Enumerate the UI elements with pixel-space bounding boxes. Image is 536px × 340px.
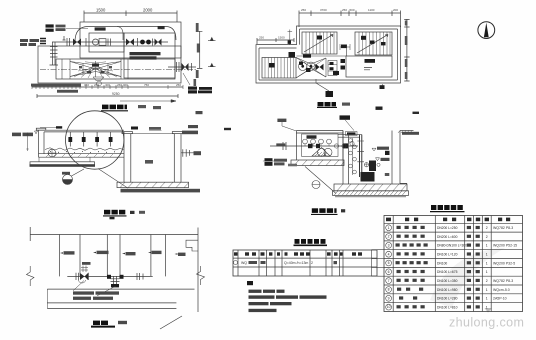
material row 4 (386, 251, 392, 257)
svg-text:DN200 L=250: DN200 L=250 (437, 226, 458, 230)
title plan2 underline (317, 106, 337, 108)
label dash on tank top (56, 126, 62, 128)
wet well right wall (392, 131, 407, 185)
title detail (93, 321, 100, 325)
outlet label block2 (199, 87, 212, 90)
stair2 up label (361, 36, 366, 40)
svg-text:500: 500 (350, 8, 355, 12)
note text line1 (73, 291, 94, 294)
foundation lower band (333, 191, 409, 196)
svg-text:2A5P-10: 2A5P-10 (493, 297, 507, 301)
left tank top edge (37, 130, 124, 132)
title sec1 scale (139, 211, 145, 214)
right dim chain (404, 19, 409, 81)
dimension line top of plan 1 (84, 11, 177, 23)
tank upper box outline (80, 22, 181, 58)
top-left label B (2 rows gray) (56, 25, 66, 28)
wall label 5 (175, 253, 178, 255)
pump table title underline (294, 244, 328, 246)
flange (152, 39, 154, 46)
submersible pump body (361, 172, 375, 182)
riser flanges (357, 141, 364, 162)
ground level symbol upper (208, 38, 216, 41)
cross target marker in tank (48, 149, 56, 157)
left base slab (30, 162, 95, 165)
svg-text:DN100: DN100 (437, 261, 447, 265)
valve handwheel circle 1 (299, 62, 307, 70)
note line 4 (249, 309, 277, 312)
svg-text:1500: 1500 (96, 8, 106, 13)
svg-text:9: 9 (388, 296, 390, 300)
flange (137, 38, 139, 46)
svg-text:Q=40m /h=13m: Q=40m /h=13m (284, 261, 308, 265)
svg-text:10: 10 (387, 305, 391, 309)
svg-text:350: 350 (84, 83, 89, 87)
title plan2 (318, 102, 324, 106)
dark marks on pipe (308, 144, 313, 148)
lower line 1 (47, 302, 176, 304)
left block hatch (265, 58, 294, 79)
foundation shadow (335, 196, 406, 198)
water level mark 1 (372, 148, 376, 151)
svg-text:1: 1 (486, 261, 488, 265)
elevation bubble label (62, 172, 70, 175)
rotated dim 1750 (196, 70, 199, 78)
detail callout circle (66, 111, 124, 169)
bottom dim chain row1 (32, 86, 183, 88)
svg-text:2: 2 (486, 235, 488, 239)
dim line top of plan 2 (299, 11, 401, 28)
stray blob below-right of title (376, 107, 383, 110)
svg-text:1: 1 (486, 305, 488, 309)
centerline stub (263, 160, 274, 162)
chain1 sub label smudge (57, 90, 78, 93)
baffle 1 (69, 132, 71, 147)
detail tag circle (312, 181, 320, 189)
left level triangle (35, 131, 38, 134)
baffle 4 (110, 132, 112, 147)
watermark faint logo behind table (430, 248, 505, 308)
svg-text:200: 200 (393, 8, 398, 12)
valve handwheel circle 2 (307, 62, 315, 70)
inner box right (124, 33, 175, 78)
band inner walls (62, 59, 128, 79)
left dim arrow line (26, 133, 28, 152)
wing top dim (257, 38, 294, 44)
svg-text:DN100 L=810: DN100 L=810 (437, 305, 458, 309)
svg-text:WQ782 P8-3: WQ782 P8-3 (493, 279, 513, 283)
title underline (101, 110, 128, 112)
right top leader label 1 (182, 131, 198, 135)
svg-text:WQ: WQ (241, 261, 247, 265)
base stems (39, 157, 90, 162)
pump table h-lines (233, 258, 377, 267)
motor circle (93, 39, 99, 45)
wet well top leader (345, 120, 354, 131)
leader arrow to sump (120, 100, 176, 103)
label on sump left cap (131, 127, 138, 130)
dark bowtie right of circles (316, 64, 324, 71)
tank room (346, 56, 392, 77)
wet well left wall (343, 131, 349, 185)
title plan2 scale (342, 103, 350, 106)
inner band lower (56, 59, 175, 79)
venturi right fittings dark (341, 59, 346, 63)
svg-text:4: 4 (388, 252, 390, 256)
row2 unit (334, 261, 338, 264)
outlet valve bowtie (182, 63, 189, 71)
machine room roof (296, 131, 343, 134)
material row 8 (386, 287, 392, 293)
leader to note text (73, 281, 116, 296)
wet well slab hatch (337, 184, 407, 191)
leader from bubble (72, 169, 129, 189)
elevation bubble (63, 175, 73, 185)
stair2 hatch (359, 32, 390, 55)
chain1 dense ticks (32, 85, 183, 89)
svg-text:1: 1 (486, 244, 488, 248)
note line 3 (249, 302, 269, 305)
dosing pipe note line2 (130, 56, 157, 59)
tank floor (39, 154, 125, 158)
small u-trap arcs (79, 280, 86, 283)
lower band left hatch block (262, 58, 296, 79)
stray diagonal break (160, 316, 182, 329)
rotated dim 2750 (196, 23, 199, 32)
material row 10 (386, 304, 392, 310)
row2 no. (234, 261, 238, 265)
pipe cluster 2 vertical drop (111, 276, 120, 285)
svg-text:DN200 L=600: DN200 L=600 (437, 235, 458, 239)
column marker w/ extension (288, 30, 293, 45)
wall label 3 (122, 253, 125, 255)
ground level symbol lower (208, 64, 216, 67)
corner dark block (289, 52, 296, 58)
svg-text:5: 5 (388, 261, 390, 265)
svg-text:9250: 9250 (112, 92, 120, 96)
left top leader (282, 122, 296, 131)
left short vertical (46, 289, 48, 308)
ground line right (400, 130, 414, 132)
outlet trapezoid detail (93, 77, 104, 81)
guide ladder line (352, 138, 354, 175)
wet well bottom slab (334, 184, 407, 191)
svg-text:1: 1 (486, 288, 488, 292)
section mark A flag (326, 91, 334, 97)
svg-text:250: 250 (176, 83, 181, 87)
left flange pair (283, 142, 286, 150)
discharge pipe top horizontal (338, 135, 362, 138)
pump body (99, 39, 106, 46)
svg-text:3: 3 (388, 244, 390, 248)
left inlet gray text (274, 159, 287, 162)
sump top caps (122, 132, 133, 134)
pump inner box (89, 33, 124, 52)
dark mark near right wall (385, 151, 390, 155)
mixing cone outline (70, 61, 121, 77)
svg-text:2: 2 (311, 261, 313, 265)
top line (30, 234, 198, 236)
mixing cone fan lines (74, 62, 117, 78)
note text line2 (73, 297, 91, 300)
svg-text:WQcm-5.0: WQcm-5.0 (493, 288, 510, 292)
wall label 1 with arrow (60, 252, 63, 254)
dosing pipe note line1 (130, 52, 161, 55)
material row 2 (386, 234, 392, 240)
material row 7 (386, 278, 392, 284)
cluster 2 dark marks (107, 275, 111, 279)
top label wet well (340, 115, 351, 119)
note line 2 (249, 295, 275, 298)
stair1 hatch (306, 32, 334, 54)
flange (85, 38, 87, 46)
floor hatch (46, 154, 121, 157)
section mark leader (316, 79, 329, 91)
room label (307, 135, 317, 138)
tank lower box outline (38, 46, 181, 83)
material row 1 (386, 225, 392, 231)
coupling ticks (108, 39, 111, 46)
svg-text:6: 6 (388, 270, 390, 274)
outer outline (256, 26, 401, 83)
stems to pipe (305, 144, 329, 146)
title scale 1:50 (138, 105, 146, 108)
svg-text:3700: 3700 (320, 8, 327, 12)
svg-text:2: 2 (388, 235, 390, 239)
svg-text:DN100 L=980: DN100 L=980 (437, 288, 458, 292)
material table title blocks (431, 205, 436, 210)
north arrow circle (478, 22, 495, 39)
svg-text:7: 7 (388, 279, 390, 283)
stray blob right of title (153, 106, 161, 109)
sump right wall (174, 134, 181, 183)
left wall top flange (36, 128, 46, 130)
pump volute circles (318, 148, 326, 156)
connector piece (328, 61, 337, 76)
pump table frame (233, 250, 377, 276)
riser pipe vertical dark (360, 135, 362, 177)
inlet pipe label line2 (20, 43, 27, 46)
machine room outer walls (296, 131, 343, 161)
rotated dim 5000 (197, 44, 200, 53)
left break zigzag (27, 266, 35, 286)
inlet flange stack symbol (40, 39, 46, 44)
isolated dash right (224, 128, 231, 130)
machine room base slab (291, 160, 344, 166)
cone center dark dots (92, 64, 99, 67)
right break zigzag (197, 266, 205, 285)
svg-text:DN100 L=120: DN100 L=120 (437, 253, 458, 257)
left tank wall (39, 130, 45, 157)
title plan1 (102, 105, 109, 110)
svg-text:2000: 2000 (143, 8, 153, 13)
svg-text:WQ200 P52-15: WQ200 P52-15 (493, 244, 517, 248)
flange pair (67, 38, 70, 46)
material table h-lines (384, 223, 523, 302)
valve V2 bowtie (126, 39, 134, 46)
stair1 arrow diagonal (304, 35, 333, 53)
title sec1 sub mark (110, 217, 115, 219)
title detail scale (118, 321, 127, 324)
row2 type (261, 261, 266, 264)
base slab hatch (294, 160, 344, 166)
title sec2 marker (341, 209, 345, 212)
stair room 1 (302, 32, 337, 54)
baffle 3 (96, 132, 98, 147)
valve V1 bowtie (73, 39, 81, 46)
svg-text:1500: 1500 (278, 36, 285, 40)
sump inner label (145, 160, 153, 164)
pump table v-lines (238, 250, 343, 276)
small level tick (63, 36, 66, 40)
bypass pipe curve (75, 27, 176, 43)
wall label 4 (148, 252, 151, 254)
rotated right dim labels (405, 21, 408, 26)
ladder coupling circles (349, 139, 353, 143)
ground hatch right (398, 131, 412, 134)
svg-text:8: 8 (388, 288, 390, 292)
sump outlet label (194, 151, 202, 155)
stair2 arrow diagonal (357, 35, 388, 54)
foundation hatch dense (334, 191, 406, 196)
bypass label 2 (158, 26, 165, 29)
svg-text:250: 250 (259, 36, 264, 40)
svg-text:1: 1 (486, 297, 488, 301)
right vertical edge (197, 228, 199, 313)
tiny dash label top right (413, 112, 420, 114)
detail leader diagonal (305, 167, 336, 194)
title sec2 underline (311, 213, 338, 215)
chain1 dense labels smudge (31, 84, 81, 87)
svg-text:260,400: 260,400 (117, 83, 128, 87)
svg-text:250: 250 (301, 8, 306, 12)
svg-text:DN100 L=350: DN100 L=350 (437, 279, 458, 283)
header cell marks (234, 252, 238, 255)
svg-text:DN80-DN100 L=300: DN80-DN100 L=300 (437, 244, 467, 248)
bottom dim chain row2 (37, 94, 178, 98)
svg-text:2: 2 (486, 279, 488, 283)
lower line 2 (47, 307, 176, 309)
svg-text:750: 750 (144, 83, 149, 87)
svg-text:260: 260 (94, 83, 99, 87)
header cell marks (386, 218, 391, 222)
main pipeline (52, 41, 168, 43)
fitting circles row upper (303, 139, 308, 144)
inner wall lines (259, 29, 398, 80)
pump triangle with hatch (312, 148, 330, 157)
label on pipe start (276, 143, 285, 146)
material table title underline (430, 211, 465, 213)
attachment boxes left of table (372, 250, 385, 277)
notes header (247, 281, 253, 285)
pipeline through room (270, 145, 358, 147)
title sec1 underline (103, 215, 127, 217)
sump bottom slab (117, 182, 189, 187)
svg-text:DN100 L=280: DN100 L=280 (437, 297, 458, 301)
handwheel dark marks (299, 62, 303, 65)
outlet leader (183, 73, 190, 85)
dark blob above venturi (303, 54, 311, 57)
svg-text:1: 1 (388, 226, 390, 230)
material table v-lines (393, 216, 491, 312)
top-left label A (2 rows dark) (46, 24, 54, 27)
pipe cluster 3 (137, 273, 143, 280)
wall label 2 (93, 252, 96, 254)
stair2 corner mark (381, 42, 386, 45)
venturi outline (296, 58, 326, 79)
check valve solid circles (140, 40, 145, 45)
door symbol mid (340, 44, 350, 50)
water level mark 2 (376, 158, 380, 161)
left top label (277, 119, 286, 122)
title sec1 marker (130, 211, 135, 214)
bypass label 1 (95, 27, 106, 30)
material row 6 (386, 269, 392, 275)
top-right step notch (186, 240, 198, 251)
mixing cone cross lines (70, 62, 121, 77)
note line 1 (249, 290, 262, 293)
mid wall (297, 45, 347, 56)
stair1 up label (317, 36, 322, 40)
left end tick (29, 227, 31, 241)
sump top edge (131, 133, 175, 135)
detail circle tag (97, 81, 102, 86)
small section mark lower right (382, 84, 384, 89)
outlet label block1 (188, 87, 197, 90)
material table frame (384, 216, 523, 312)
right dim line (197, 31, 202, 68)
sump base dark bar (121, 189, 201, 193)
svg-text:WQ200 P32-5: WQ200 P32-5 (493, 261, 515, 265)
svg-text:400: 400 (105, 83, 110, 87)
label above sump gray (149, 127, 161, 130)
title section2 (312, 208, 318, 213)
sludge dots (50, 151, 115, 154)
sump slab hatch (120, 182, 189, 187)
sump left wall (124, 132, 131, 182)
riser fitting cluster (81, 266, 88, 273)
material row 5 (386, 260, 392, 266)
right outside label (402, 132, 419, 135)
stair room 2 (355, 32, 392, 55)
svg-text:1: 1 (486, 253, 488, 257)
north arrow needle (484, 23, 489, 38)
material row 3 (386, 242, 392, 248)
pipe cluster 1 (76, 273, 89, 280)
outlet flange plates (177, 62, 180, 72)
centerline dash-dot (40, 68, 196, 70)
inlet pipe label line1 (20, 39, 28, 42)
inlet vertical pipe w/ flanges (50, 42, 59, 65)
machine room inner box (302, 134, 338, 156)
venturi cross lines (296, 58, 326, 79)
sludge wavy line (45, 148, 124, 151)
title section1 (104, 210, 110, 215)
valve V3 bowtie (155, 39, 162, 46)
right top leader label 2 (188, 125, 198, 128)
right small label (196, 111, 203, 114)
svg-text:1: 1 (486, 270, 488, 274)
horizontal pipe (67, 275, 152, 277)
small riser label (82, 262, 91, 265)
outlet pipe (168, 63, 196, 71)
rotated dim 250 (194, 79, 197, 86)
title detail thick underline (91, 326, 115, 328)
leader line from labels (66, 27, 88, 29)
baffle 2 (83, 132, 85, 147)
door dark mark (341, 45, 347, 49)
stair2 mid mark (370, 41, 375, 44)
